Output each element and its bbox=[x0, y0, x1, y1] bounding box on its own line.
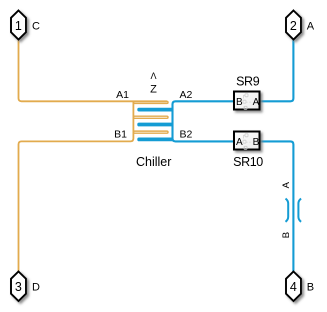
svg-text:Λ: Λ bbox=[150, 71, 156, 81]
wire D: Chiller B1 spine down to port 3 bbox=[19, 101, 134, 271]
chiller blue coil tooth 1 bbox=[137, 108, 173, 112]
svg-text:2: 2 bbox=[290, 19, 297, 33]
block SR10 bbox=[234, 132, 260, 150]
svg-text:A: A bbox=[236, 137, 243, 148]
port 1 bbox=[11, 11, 26, 40]
svg-text:A1: A1 bbox=[116, 89, 129, 101]
wire C: port 1 to Chiller A1 (thermal liquid) bbox=[19, 40, 167, 102]
chiller blue coil tooth 3 bbox=[137, 138, 173, 142]
svg-text:B: B bbox=[281, 232, 292, 238]
svg-text:A: A bbox=[253, 97, 260, 108]
svg-text:B: B bbox=[307, 282, 314, 294]
svg-text:B2: B2 bbox=[180, 129, 193, 141]
SR10 internal icon bbox=[243, 134, 252, 150]
block SR9 bbox=[234, 92, 260, 110]
port 4 bbox=[286, 272, 301, 302]
svg-text:3: 3 bbox=[15, 280, 22, 294]
svg-text:A2: A2 bbox=[180, 89, 193, 101]
svg-text:Z: Z bbox=[150, 83, 157, 95]
svg-text:D: D bbox=[32, 282, 40, 294]
port 3 bbox=[11, 272, 26, 302]
wire B: SR10 to port 4 bbox=[261, 141, 294, 271]
chiller blue coil tooth 2 bbox=[137, 123, 173, 127]
svg-text:B: B bbox=[253, 137, 260, 148]
inline block bracket right bbox=[298, 199, 301, 222]
wire A: SR9 to port 2 bbox=[261, 40, 294, 102]
svg-text:4: 4 bbox=[290, 280, 297, 294]
chiller orange coil tooth 3 bbox=[133, 131, 168, 133]
svg-text:B1: B1 bbox=[114, 129, 127, 141]
svg-text:SR10: SR10 bbox=[233, 155, 263, 169]
wire A2: Chiller to SR9 (two-phase fluid) bbox=[173, 101, 234, 141]
port 2 bbox=[286, 11, 301, 40]
inline block bracket left bbox=[286, 199, 289, 222]
chiller orange coil tooth 1 bbox=[133, 101, 168, 103]
svg-text:1: 1 bbox=[15, 19, 22, 33]
svg-text:A: A bbox=[307, 20, 315, 32]
svg-text:A: A bbox=[281, 181, 292, 188]
svg-text:C: C bbox=[32, 20, 40, 32]
SR9 internal icon bbox=[243, 94, 252, 110]
svg-text:SR9: SR9 bbox=[236, 75, 260, 89]
svg-text:B: B bbox=[236, 97, 243, 108]
svg-text:Chiller: Chiller bbox=[136, 155, 171, 169]
chiller orange coil tooth 2 bbox=[133, 116, 168, 118]
